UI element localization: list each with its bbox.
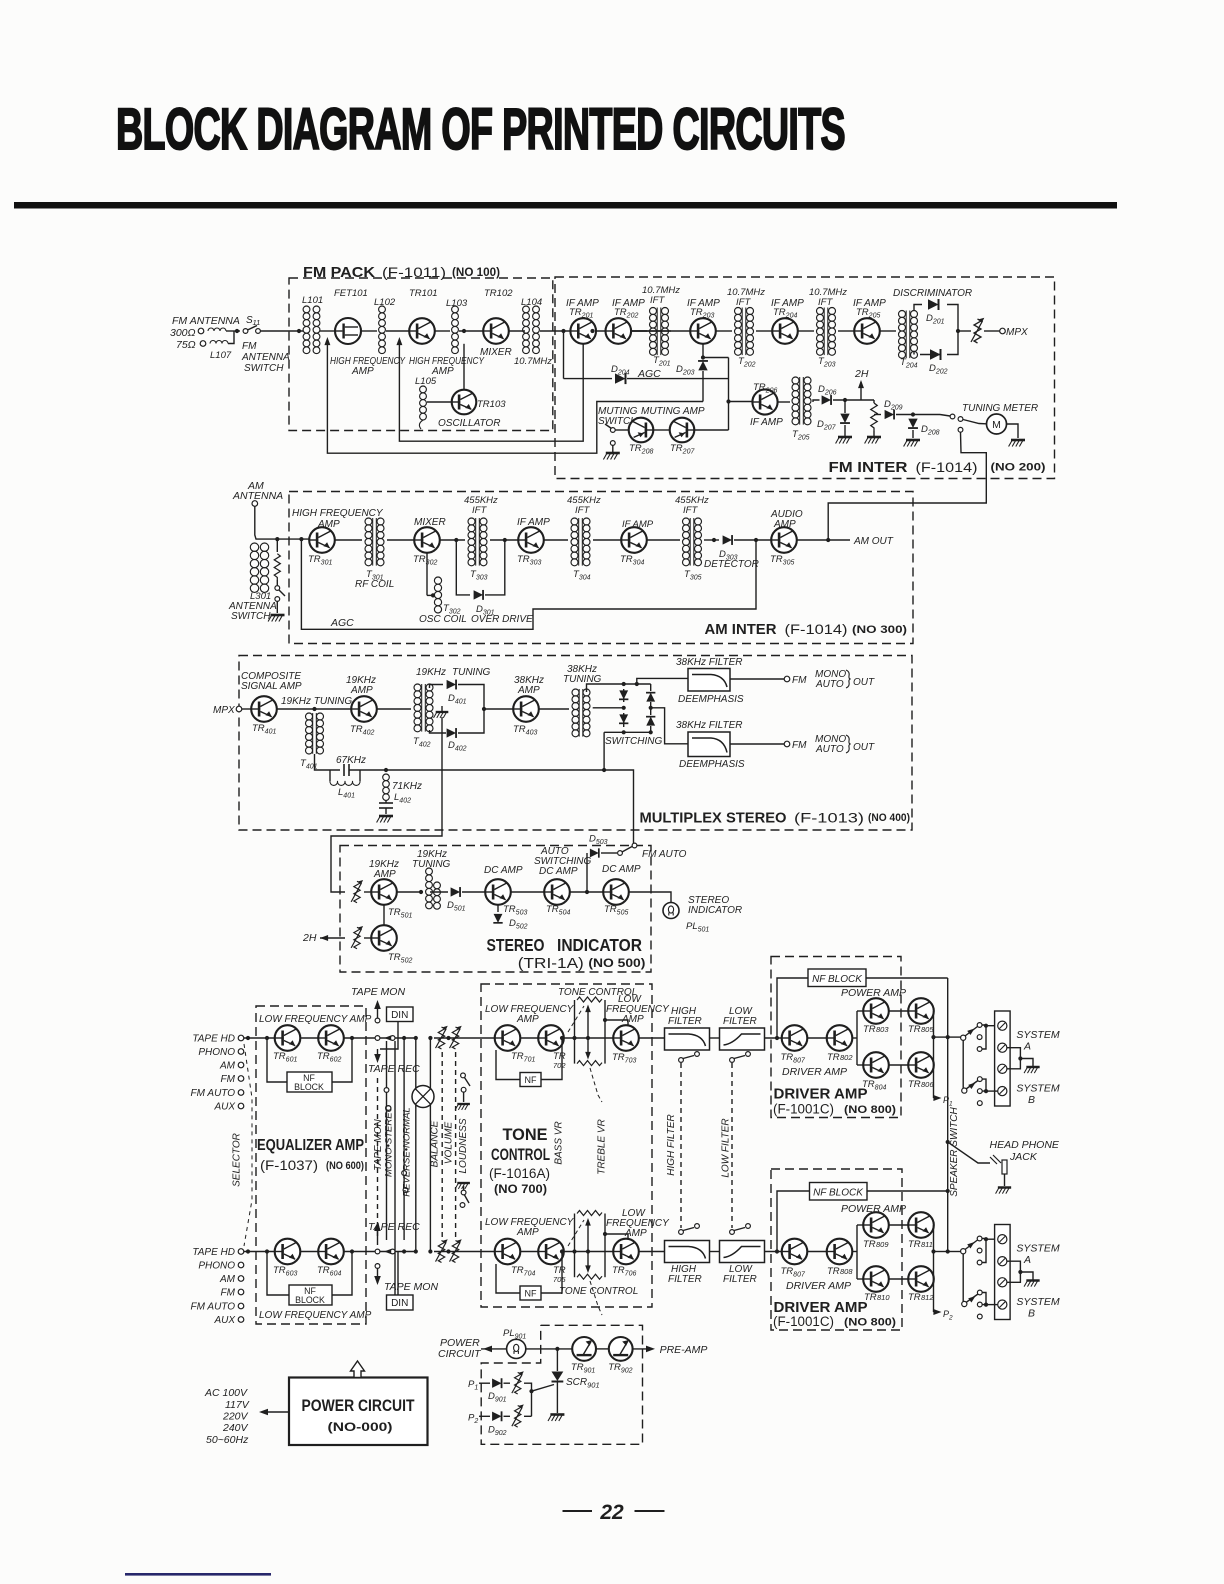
- wire low filter to driver upper: [765, 1037, 783, 1039]
- wire rail to FM AUTO switch: [604, 770, 633, 845]
- svg-text:B: B: [1028, 1094, 1035, 1106]
- svg-text:AUX: AUX: [213, 1102, 235, 1113]
- wire TR201 to T201: [596, 330, 647, 332]
- svg-text:TR804: TR804: [862, 1079, 886, 1092]
- vertical link REVERSE-NORMAL: [394, 1041, 396, 1296]
- svg-text:OUT: OUT: [853, 677, 875, 688]
- svg-text:FM AUTO: FM AUTO: [191, 1088, 236, 1099]
- svg-text:(F-1001C): (F-1001C): [773, 1314, 834, 1329]
- node junction TR201 base AGC: [563, 331, 565, 379]
- transistor TR502: [371, 925, 397, 951]
- svg-text:TONE: TONE: [503, 1126, 548, 1144]
- wire TR809 to TR811: [889, 1224, 908, 1226]
- transistor TR305 audio amp: [771, 527, 797, 553]
- wire TR602 out: [344, 1037, 416, 1039]
- svg-text:D402: D402: [448, 740, 467, 753]
- tone wiper arrows upper: [587, 1008, 589, 1056]
- svg-text:803: 803: [876, 1025, 889, 1034]
- NF block wires lower (driver): [777, 1191, 810, 1252]
- loudness ground lower: [455, 1183, 470, 1189]
- svg-text:INDICATOR: INDICATOR: [688, 905, 742, 916]
- svg-text:OSC COIL: OSC COIL: [419, 614, 467, 625]
- svg-text:NF: NF: [525, 1289, 537, 1299]
- svg-text:A: A: [1023, 1041, 1031, 1053]
- low filter box lower: [720, 1241, 765, 1263]
- ground at T402: [434, 712, 449, 718]
- oscillator coil T302: [426, 553, 428, 596]
- ground system A lower: [1024, 1281, 1040, 1287]
- FM antenna terminal 75 ohm: [200, 341, 206, 347]
- svg-text:FM: FM: [242, 341, 257, 352]
- svg-text:SCR901: SCR901: [566, 1377, 600, 1390]
- loudness switch lower: [463, 1186, 465, 1190]
- output join wires lower: [933, 1225, 935, 1312]
- terminals on lower bus: [375, 1249, 380, 1254]
- svg-text:(NO 200): (NO 200): [991, 462, 1046, 474]
- svg-text:D204: D204: [611, 364, 630, 377]
- NF wires upper (tone): [496, 1050, 520, 1080]
- svg-text:T304: T304: [573, 569, 591, 582]
- wire T304 to TR304: [593, 539, 621, 541]
- wire T205 to D206: [813, 400, 820, 402]
- svg-text:SWITCH: SWITCH: [244, 363, 284, 374]
- diode D901: [492, 1378, 501, 1388]
- wire TR201 emitter to TR101 base (AGC): [399, 341, 583, 441]
- svg-text:TAPE HD: TAPE HD: [192, 1247, 235, 1258]
- screw terminal B1 lower: [998, 1300, 1007, 1309]
- MULTIPLEX STEREO section box (F-1013) (NO 400): [239, 656, 912, 831]
- wire T303 to TR303: [490, 539, 518, 541]
- svg-text:IF AMP: IF AMP: [517, 517, 550, 528]
- power control section dashed box: [481, 1325, 642, 1444]
- svg-text:LOW FREQUENCY AMP: LOW FREQUENCY AMP: [259, 1310, 372, 1321]
- system ground wiring lower: [1007, 1261, 1020, 1272]
- svg-text:PL901: PL901: [503, 1328, 526, 1341]
- svg-text:TR303: TR303: [517, 554, 541, 567]
- transistor TR902: [609, 1337, 633, 1361]
- svg-text:TR501: TR501: [388, 907, 412, 920]
- svg-text:TR: TR: [863, 1024, 876, 1035]
- speaker terminal strip upper: [995, 1011, 1011, 1106]
- svg-text:(F-1037): (F-1037): [260, 1158, 318, 1173]
- wire TR302 to T303: [440, 539, 465, 541]
- wire TR403 to 38KHz transformer: [539, 708, 569, 710]
- svg-text:AM INTER: AM INTER: [705, 622, 778, 638]
- svg-text:TR703: TR703: [612, 1052, 636, 1065]
- potentiometer BALANCE upper: [436, 1026, 448, 1049]
- svg-text:FM ANTENNA: FM ANTENNA: [172, 315, 240, 327]
- AM antenna terminal: [252, 501, 258, 507]
- speaker switch contacts A lower: [977, 1236, 982, 1241]
- transistor TR803: [863, 998, 889, 1024]
- wire discriminator to MPX pot: [958, 330, 971, 332]
- svg-text:TR401: TR401: [252, 723, 276, 736]
- 19KHz tuning coil: [426, 868, 433, 875]
- svg-text:FET101: FET101: [334, 288, 368, 299]
- wire TR101 to L103: [435, 330, 450, 332]
- wire top rail to 38KHz filter 1: [637, 678, 688, 684]
- NF BLOCK lower (driver): [810, 1183, 868, 1201]
- svg-text:(F-1014): (F-1014): [785, 622, 848, 637]
- FM antenna terminal 300 ohm: [198, 328, 204, 334]
- ground below D207: [844, 425, 846, 436]
- svg-text:(F-1014): (F-1014): [916, 460, 978, 475]
- svg-text:P1: P1: [468, 1379, 478, 1392]
- contact tie B: [982, 1079, 986, 1091]
- svg-text:TR807: TR807: [781, 1266, 806, 1279]
- wire filter2 to FM output 2: [730, 743, 785, 745]
- POWER CIRCUIT box (NO-000): [289, 1378, 428, 1446]
- svg-text:AUTO: AUTO: [815, 679, 844, 690]
- NF box lower (tone): [520, 1286, 541, 1300]
- svg-text:M: M: [992, 419, 1001, 431]
- svg-text:VOLUME: VOLUME: [444, 1122, 455, 1165]
- wire to AM main line: [262, 538, 311, 540]
- svg-text:117V: 117V: [225, 1399, 250, 1411]
- wire tank to switching rail: [349, 769, 604, 771]
- wire TR304 to T305: [647, 539, 680, 541]
- svg-text:FM AUTO: FM AUTO: [191, 1302, 236, 1313]
- speaker switch contacts A: [977, 1023, 982, 1028]
- wire coil to D501: [430, 891, 448, 893]
- svg-text:FM: FM: [221, 1074, 236, 1085]
- svg-text:PHONO: PHONO: [198, 1047, 235, 1058]
- tone linkage dashed upper: [568, 1006, 584, 1032]
- contact tie bar A: [982, 1025, 986, 1049]
- switching bridge bottom rail: [604, 731, 651, 733]
- svg-text:TR: TR: [908, 1239, 921, 1250]
- svg-text:TR604: TR604: [317, 1265, 341, 1278]
- svg-text:L401: L401: [338, 787, 355, 800]
- svg-text:AM OUT: AM OUT: [853, 536, 894, 547]
- transistor TR401: [251, 696, 277, 722]
- wire TR902 to PRE-AMP: [633, 1348, 649, 1350]
- loudness ground upper: [455, 1104, 470, 1110]
- filter bypass switches upper: [679, 1058, 684, 1063]
- page number 22: [563, 1510, 593, 1512]
- diode D301 over drive: [456, 540, 470, 595]
- svg-text:220V: 220V: [222, 1411, 249, 1423]
- svg-text:805: 805: [921, 1025, 934, 1034]
- svg-text:D203: D203: [676, 364, 695, 377]
- MPX output potentiometer: [971, 318, 984, 343]
- svg-text:TR207: TR207: [670, 443, 695, 456]
- wire bus to speaker switch pivot 3: [948, 1251, 961, 1253]
- diode D401 branch: [430, 685, 444, 689]
- wire TR504 to TR505: [570, 891, 603, 893]
- svg-text:FILTER: FILTER: [723, 1274, 757, 1285]
- resistor to ground after D206: [871, 403, 877, 431]
- muting switch contacts: [610, 428, 615, 433]
- svg-text:A: A: [1023, 1254, 1031, 1266]
- svg-text:(NO 400): (NO 400): [868, 812, 910, 824]
- wire TR301 to T301: [335, 539, 362, 541]
- wire TR808 to push-pull pair lower: [852, 1251, 857, 1253]
- diode D402 branch: [447, 728, 456, 738]
- NF block wires upper (driver): [777, 978, 808, 1038]
- wire TR207 to muting bus: [695, 429, 729, 431]
- svg-text:MUTING AMP: MUTING AMP: [641, 406, 705, 417]
- svg-text:L402: L402: [394, 792, 411, 805]
- wire T203 to TR205: [838, 330, 854, 332]
- transistor TR602: [318, 1025, 344, 1051]
- transistor TR603: [275, 1239, 301, 1265]
- transistor TR703: [613, 1025, 639, 1051]
- SCR901: [556, 1349, 558, 1371]
- svg-text:TR: TR: [863, 1239, 876, 1250]
- svg-text:TR402: TR402: [350, 724, 374, 737]
- wire bus to headphone jack: [948, 1142, 990, 1163]
- input potentiometer TR501: [331, 884, 345, 892]
- svg-text:T202: T202: [738, 356, 756, 369]
- wire TR807 to TR802: [807, 1037, 826, 1039]
- svg-text:ANTENNA: ANTENNA: [232, 490, 283, 502]
- capacitor 67KHz: [343, 764, 345, 776]
- svg-text:AMP: AMP: [624, 1228, 647, 1239]
- svg-text:NF BLOCK: NF BLOCK: [812, 974, 863, 985]
- wire TR305 to AM OUT: [797, 539, 850, 541]
- balance volume bus left: [415, 1038, 417, 1252]
- svg-text:AM: AM: [219, 1274, 236, 1285]
- svg-text:810: 810: [877, 1293, 890, 1302]
- svg-text:(NO 700): (NO 700): [494, 1184, 547, 1196]
- transistor TR811: [908, 1212, 934, 1238]
- svg-text:OSCILLATOR: OSCILLATOR: [438, 418, 500, 429]
- wire TR601 to TR602: [300, 1037, 318, 1039]
- screw terminal A2: [998, 1043, 1007, 1052]
- wire L102 to TR101: [386, 330, 409, 332]
- muting switch ground: [612, 446, 614, 453]
- tone linkage dashed lower: [568, 1220, 584, 1246]
- svg-text:PL501: PL501: [686, 921, 709, 934]
- svg-text:DIN: DIN: [391, 1298, 408, 1309]
- svg-text:TR601: TR601: [273, 1051, 297, 1064]
- diode D201: [928, 299, 939, 310]
- headphone jack symbol: [990, 1155, 1001, 1164]
- diode D202: [930, 349, 941, 360]
- TAPE REC arrow upper: [377, 1049, 379, 1057]
- wire tone tap to TR706: [605, 1234, 628, 1240]
- AGC return line: [301, 539, 756, 629]
- switching diode 4: [646, 717, 655, 726]
- svg-text:DEEMPHASIS: DEEMPHASIS: [679, 759, 745, 770]
- svg-text:DC AMP: DC AMP: [539, 866, 578, 877]
- wire TR603 to TR604: [300, 1251, 318, 1253]
- svg-text:TR902: TR902: [608, 1362, 632, 1375]
- svg-text:L105: L105: [415, 376, 437, 387]
- resistor antenna switch: [276, 539, 278, 552]
- wire TR402 to T402: [377, 708, 411, 710]
- volume linkage dashed: [441, 1052, 443, 1237]
- system ground wiring upper: [1007, 1048, 1020, 1059]
- svg-text:LOW FILTER: LOW FILTER: [721, 1118, 732, 1177]
- output bus to speaker switch upper: [934, 1036, 948, 1038]
- svg-text:D208: D208: [921, 424, 940, 437]
- arrow to power circuit: [481, 1348, 507, 1350]
- potentiometer TR502: [351, 926, 363, 949]
- svg-text:ANTENNA: ANTENNA: [241, 352, 290, 363]
- wire bus to tone control lower: [434, 1251, 495, 1253]
- power circuit up arrow: [351, 1361, 365, 1378]
- IF transformer T205: [792, 377, 799, 384]
- diode D503 FM AUTO branch: [586, 853, 588, 892]
- svg-text:67KHz: 67KHz: [336, 755, 366, 766]
- transistor TR604: [318, 1239, 344, 1265]
- wire TR206 to T205: [778, 401, 790, 403]
- svg-text:(NO 800): (NO 800): [844, 1104, 896, 1116]
- transistor TR805: [908, 998, 934, 1024]
- wire FET101 to L102: [361, 330, 377, 332]
- mono mixer circle: [412, 1086, 434, 1108]
- svg-text:2H: 2H: [854, 368, 869, 380]
- transistor TR208 muting switch: [629, 418, 654, 443]
- wire TR604 out: [344, 1251, 416, 1253]
- transistor TR207 muting amp: [670, 418, 695, 443]
- svg-text:TUNING: TUNING: [452, 667, 491, 678]
- wire TR203 junction to TR206: [703, 357, 729, 359]
- svg-text:D901: D901: [488, 1391, 507, 1404]
- diode D208: [908, 419, 918, 428]
- wire L104 to FM INTER TR201: [540, 330, 570, 332]
- wire tuning meter switch to AM OUT line: [828, 432, 986, 540]
- svg-text:DEEMPHASIS: DEEMPHASIS: [678, 694, 744, 705]
- wire DIN lower: [397, 1252, 399, 1296]
- svg-text:TAPE MON: TAPE MON: [351, 986, 405, 998]
- transistor TR807 (lower driver): [782, 1239, 808, 1265]
- svg-text:DRIVER AMP: DRIVER AMP: [782, 1066, 847, 1078]
- selector linkage dashed: [244, 1044, 252, 1246]
- antenna switch ground: [276, 602, 278, 614]
- wire low filter to driver lower: [765, 1251, 783, 1253]
- svg-text:(TRI-1A): (TRI-1A): [518, 955, 584, 972]
- svg-text:(NO 100): (NO 100): [452, 267, 500, 279]
- AC arrow: [262, 1411, 289, 1413]
- svg-text:D502: D502: [509, 918, 528, 931]
- varistor after D902: [504, 1415, 511, 1417]
- low filter box upper: [720, 1028, 765, 1050]
- 38KHz filter 2 deemphasis box: [688, 732, 730, 757]
- coil L107: [208, 328, 226, 331]
- svg-text:71KHz: 71KHz: [392, 781, 422, 792]
- svg-text:DISCRIMINATOR: DISCRIMINATOR: [893, 288, 972, 299]
- svg-text:D206: D206: [818, 384, 837, 397]
- tone network upper: [574, 1000, 576, 1038]
- svg-text:MULTIPLEX STEREO: MULTIPLEX STEREO: [640, 811, 787, 827]
- svg-text:EQUALIZER AMP: EQUALIZER AMP: [257, 1137, 364, 1154]
- bottom blue rule: [125, 1573, 271, 1576]
- wire TR810 to TR812: [889, 1278, 908, 1280]
- svg-text:75Ω: 75Ω: [176, 339, 196, 351]
- svg-text:HEAD PHONE: HEAD PHONE: [990, 1139, 1060, 1151]
- svg-text:(NO 600): (NO 600): [326, 1160, 364, 1172]
- svg-text:TR403: TR403: [513, 724, 537, 737]
- screw terminal A1 lower: [998, 1235, 1007, 1244]
- terminals on upper bus: [375, 1036, 380, 1041]
- svg-text:240V: 240V: [222, 1422, 249, 1434]
- wire L105 to TR103: [427, 401, 452, 403]
- NF block feedback wires lower: [267, 1252, 289, 1296]
- tuning meter switch: [940, 415, 950, 417]
- switching diode 2: [619, 714, 628, 723]
- svg-text:38KHz FILTER: 38KHz FILTER: [676, 657, 743, 668]
- svg-text:AMP: AMP: [350, 685, 373, 696]
- svg-text:TUNING METER: TUNING METER: [962, 403, 1038, 414]
- ground below D208: [912, 430, 914, 438]
- 67KHz tank branch: [315, 754, 341, 770]
- diode D303 detector: [723, 535, 732, 545]
- svg-text:SELECTOR: SELECTOR: [232, 1133, 243, 1187]
- svg-text:TR305: TR305: [770, 554, 794, 567]
- low filter linkage: [731, 1063, 733, 1228]
- svg-text:TREBLE VR: TREBLE VR: [597, 1119, 608, 1175]
- stereo indicator lamp PL501: [663, 903, 679, 919]
- svg-text:NF BLOCK: NF BLOCK: [813, 1188, 864, 1199]
- svg-text:SIGNAL AMP: SIGNAL AMP: [241, 681, 302, 692]
- svg-text:AUTO: AUTO: [815, 744, 844, 755]
- svg-text:L102: L102: [374, 297, 396, 308]
- svg-text:TR504: TR504: [546, 904, 570, 917]
- svg-text:STEREO: STEREO: [487, 935, 545, 955]
- svg-text:L107: L107: [210, 350, 232, 361]
- tuning meter M: [987, 414, 1007, 434]
- svg-text:TR: TR: [827, 1266, 840, 1277]
- NF BLOCK lower (equalizer): [289, 1285, 332, 1305]
- wire L103 to TR102: [459, 330, 484, 332]
- transformer T402: [414, 684, 421, 691]
- diode D501: [451, 887, 460, 897]
- svg-text:D201: D201: [926, 313, 945, 326]
- transistor TR901: [572, 1337, 596, 1361]
- svg-text:D902: D902: [488, 1425, 507, 1438]
- svg-text:SYSTEM: SYSTEM: [1016, 1243, 1059, 1255]
- svg-text:FM AUTO: FM AUTO: [642, 849, 687, 860]
- svg-text:(F-1013): (F-1013): [794, 811, 864, 826]
- RF transformer T301: [365, 518, 372, 525]
- svg-text:D207: D207: [817, 419, 837, 432]
- svg-text:SYSTEM: SYSTEM: [1016, 1029, 1059, 1041]
- svg-text:BLOCK: BLOCK: [294, 1082, 324, 1092]
- wire TR702 to tone network: [564, 1037, 614, 1039]
- node P1: [933, 1095, 941, 1101]
- diode D502 below TR503: [497, 905, 499, 912]
- svg-text:TR101: TR101: [409, 288, 438, 299]
- antenna switch contacts: [276, 580, 278, 585]
- svg-text:MPX: MPX: [213, 705, 235, 716]
- tuning transformer T401: [306, 713, 313, 720]
- svg-text:PRE-AMP: PRE-AMP: [660, 1344, 708, 1356]
- svg-text:TR304: TR304: [620, 554, 644, 567]
- wire TR703 to high filter: [639, 1037, 665, 1039]
- wire lamp to TR901: [526, 1348, 572, 1350]
- screw terminal A1: [998, 1021, 1007, 1030]
- wire TR103 to TR102 junction: [463, 344, 465, 390]
- high filter linkage: [680, 1063, 682, 1228]
- transistor TR812: [908, 1266, 934, 1292]
- wire TR803 to TR805: [889, 1010, 908, 1012]
- svg-text:HIGH FILTER: HIGH FILTER: [666, 1114, 677, 1175]
- potentiometer VOLUME upper: [450, 1026, 462, 1049]
- balance volume bus right: [429, 1038, 431, 1252]
- svg-text:AMP: AMP: [517, 685, 540, 696]
- svg-text:FM: FM: [792, 675, 807, 686]
- speaker switch pivot 2: [962, 1040, 964, 1088]
- ground system A upper: [1024, 1067, 1040, 1073]
- tone network lower: [574, 1214, 576, 1278]
- ground below L402 trap: [377, 816, 393, 823]
- transistor TR807 (upper driver): [782, 1025, 808, 1051]
- loudness switch upper: [461, 1073, 466, 1078]
- discriminator loop wires: [914, 305, 922, 312]
